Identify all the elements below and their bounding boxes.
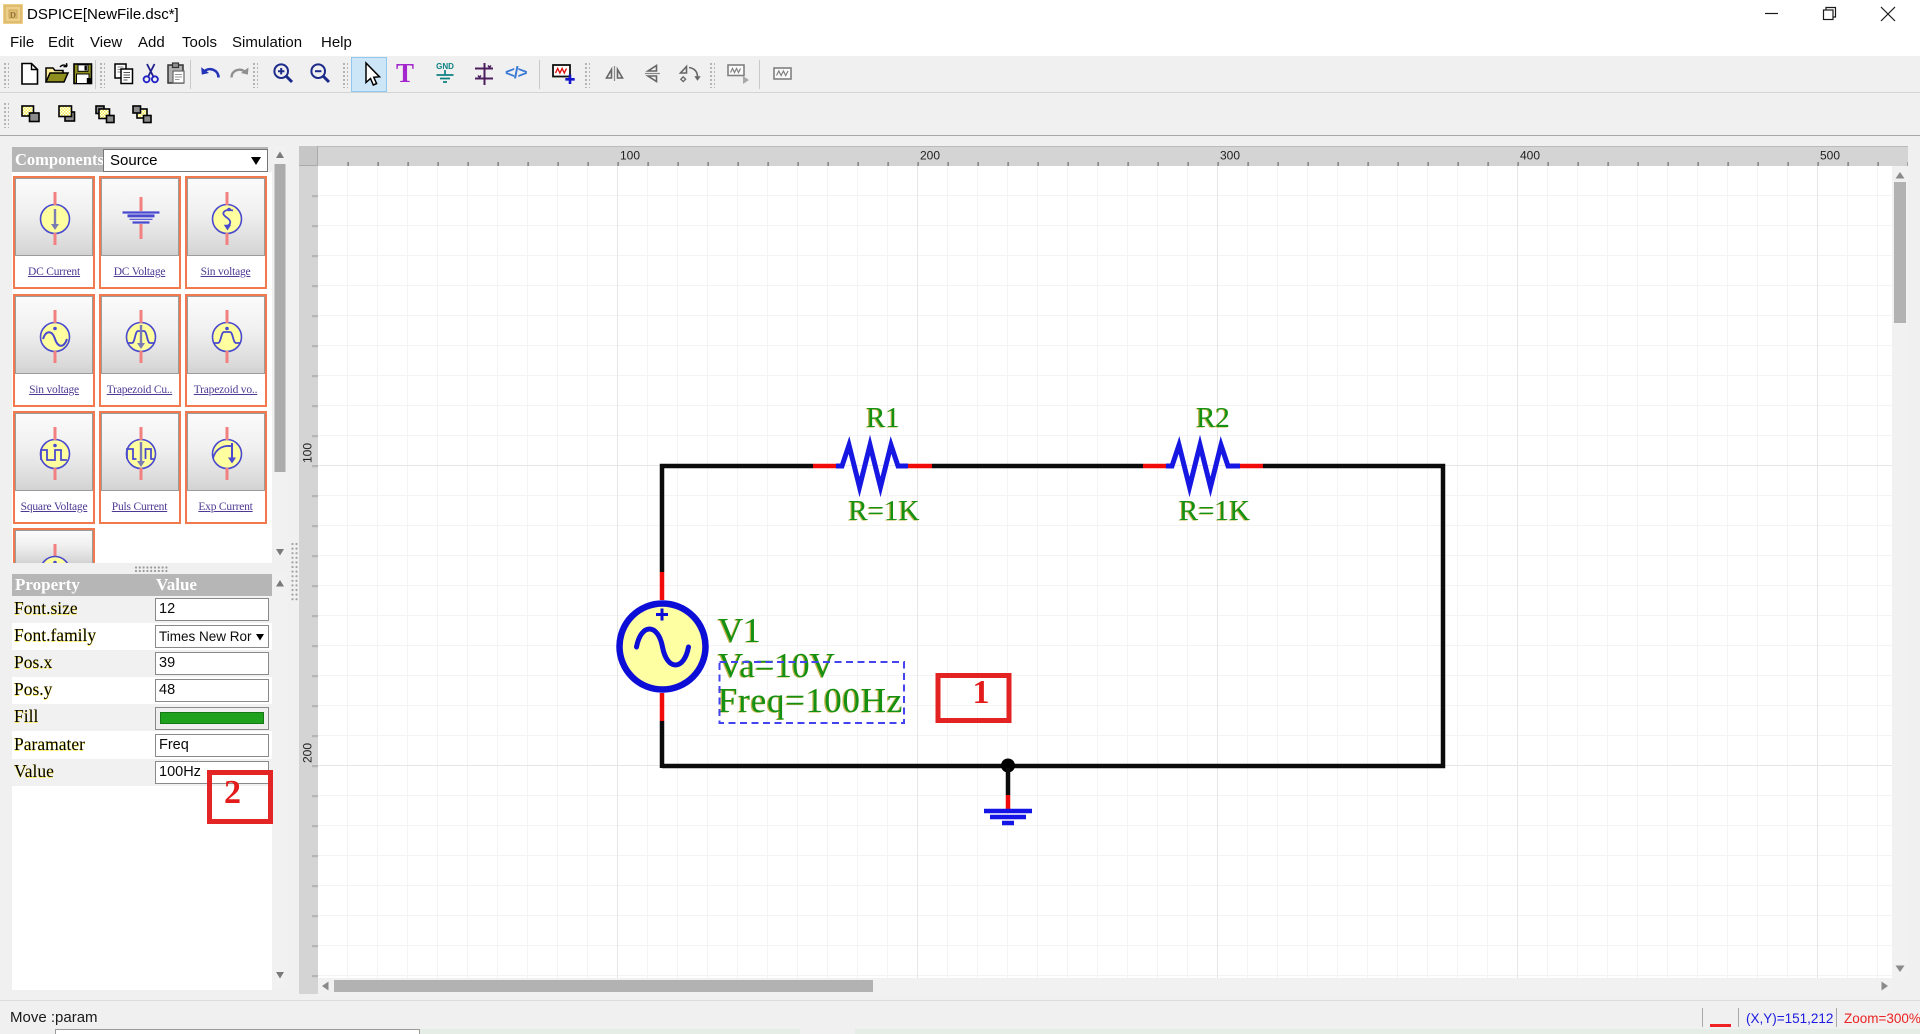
svg-text:GND: GND [436,62,454,71]
svg-text:Va=10V: Va=10V [718,646,835,685]
svg-text:500: 500 [1820,149,1840,163]
svg-text:1: 1 [973,674,990,711]
svg-text:R1: R1 [866,402,900,434]
svg-text:200: 200 [920,149,940,163]
svg-text:100: 100 [620,149,640,163]
svg-text:R=1K: R=1K [848,495,919,527]
svg-text:V1: V1 [718,611,761,650]
svg-text:Freq=100Hz: Freq=100Hz [718,681,903,720]
svg-text:R=1K: R=1K [1179,495,1250,527]
svg-text:100: 100 [301,443,315,463]
svg-text:D: D [10,10,16,20]
svg-text:R2: R2 [1196,402,1230,434]
svg-text:400: 400 [1520,149,1540,163]
svg-text:200: 200 [301,743,315,763]
svg-text:300: 300 [1220,149,1240,163]
